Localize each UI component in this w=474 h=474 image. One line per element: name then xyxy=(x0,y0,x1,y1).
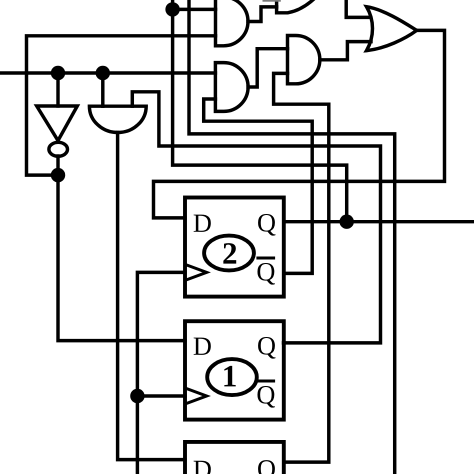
wire gate E left input drop xyxy=(101,73,104,106)
D flip-flop 0 box (cut at bottom) xyxy=(185,442,284,474)
DFF2 Q-bar overline xyxy=(256,257,275,260)
wire gate E output down to D0 xyxy=(118,133,185,460)
DFF2 ellipse xyxy=(204,236,254,271)
and gate C xyxy=(288,36,320,84)
wire Q-bar-0 riser from top edge to bottom edge xyxy=(189,0,395,474)
wire OR gate top input from top edge xyxy=(346,0,370,17)
DFF2 clock triangle xyxy=(185,264,207,280)
inverter U2 triangle xyxy=(37,106,78,141)
junction node on main line at gate E xyxy=(96,66,110,80)
wire clock branch to DFF1 clk xyxy=(137,394,185,397)
DFF1 label Q xyxy=(258,337,275,359)
DFF2 number 2 xyxy=(223,243,236,264)
DFF0 label Q xyxy=(258,460,275,474)
and gate E pointing down xyxy=(89,106,146,132)
junction node on clock at DFF1 xyxy=(130,389,144,403)
wire OR gate output to D2 input xyxy=(154,30,445,218)
wire main input line X from left edge xyxy=(0,71,215,74)
wire gate C output to OR gate lower input xyxy=(320,42,371,60)
inverter U2 bubble xyxy=(49,142,68,156)
wire Q0 to gate C lower input xyxy=(274,73,329,462)
D flip-flop 2 box xyxy=(185,198,284,297)
wire inverter output branch left-up to gate A lower input xyxy=(27,36,216,175)
DFF2 label Q xyxy=(258,214,275,236)
wire inverter input drop xyxy=(56,73,59,106)
DFF1 number 1 xyxy=(224,366,235,386)
gray cut wire remnant at top edge xyxy=(263,0,281,2)
D flip-flop 1 box xyxy=(185,321,284,419)
DFF1 label Q-bar Q xyxy=(257,386,274,408)
or gate D xyxy=(367,7,417,51)
DFF1 clock triangle xyxy=(185,388,207,404)
wire Q2 riser from top edge down to Q2 line xyxy=(173,0,347,222)
wire clock net to DFF2 clk xyxy=(137,272,185,474)
and gate G (cut at top) xyxy=(277,0,315,13)
wire Q-bar-2 to gate B lower input xyxy=(204,99,313,273)
wire gate A output to gate G input xyxy=(248,7,277,22)
and gate B xyxy=(215,63,248,112)
junction node on main line at inverter xyxy=(51,66,65,80)
junction node top Q2 branch xyxy=(165,2,179,16)
DFF2 label D xyxy=(194,215,211,232)
and gate A (cut at top) xyxy=(216,0,248,46)
DFF1 label D xyxy=(194,338,211,355)
wire Q1 to gate E right input xyxy=(132,92,380,343)
wire inverter output down to junction and to D1 xyxy=(58,156,185,341)
wire gate B output to gate C top input xyxy=(248,49,287,87)
wire gate A top input from node xyxy=(173,8,216,11)
DFF0 label D xyxy=(194,461,211,474)
DFF1 Q-bar overline xyxy=(256,380,275,383)
DFF1 ellipse xyxy=(207,359,257,395)
junction node inverter output xyxy=(51,168,65,182)
junction node on Q2 line xyxy=(340,215,354,229)
wire Q2 output line to right edge xyxy=(284,220,474,223)
DFF2 label Q-bar Q xyxy=(257,263,274,285)
